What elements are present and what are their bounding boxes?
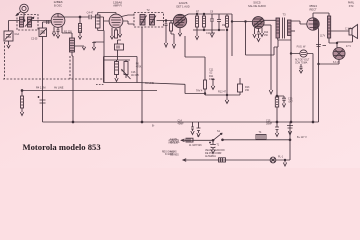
svg-text:FUS. W: FUS. W [297, 46, 306, 49]
power line top [181, 139, 213, 141]
svg-text:117V: 117V [320, 36, 326, 38]
junction T4 right [289, 139, 291, 141]
resistor R7 [196, 14, 199, 30]
wire screen dropper [276, 47, 278, 96]
svg-text:C4 47: C4 47 [87, 12, 94, 15]
resistor R5 beside V2 [96, 15, 101, 28]
resistor grid leak [170, 21, 176, 49]
V2 cathode resistor [115, 28, 118, 38]
ground det cluster 1 [195, 30, 198, 40]
capacitor osc grid [47, 20, 49, 24]
speaker wire 2 [337, 36, 353, 43]
wire C11 to pot [117, 50, 119, 60]
junction bus 2 [141, 121, 143, 123]
ground arrow bottom [283, 160, 286, 166]
ground below C1A [7, 41, 10, 48]
antenna coil can (dashed box) [17, 15, 38, 31]
svg-text:R2 22K: R2 22K [64, 31, 72, 34]
tuning capacitor C1A [4, 31, 13, 41]
svg-text:P-M: P-M [349, 5, 354, 8]
svg-text:SAL DE AUDIO: SAL DE AUDIO [248, 4, 266, 8]
V2 screen pin [118, 27, 121, 37]
T2 primary winding [140, 15, 145, 26]
wire pilot bottom [319, 60, 340, 65]
junction det2 [218, 29, 220, 31]
wire T3 bottom down [278, 35, 291, 122]
junction AVC left [21, 90, 23, 92]
svg-text:K=1000: K=1000 [165, 154, 174, 156]
junction V3 grid [165, 20, 167, 22]
dashed link into volume box [96, 84, 104, 86]
AC chevron bottom [183, 159, 186, 162]
tube V3 12AV6 [173, 14, 186, 27]
junction plate node [79, 16, 81, 18]
svg-text:150: 150 [245, 89, 250, 92]
junction R16 top [276, 95, 278, 97]
tuning arrow in coil [25, 17, 34, 26]
arrow below audio line [225, 95, 229, 104]
wire 35W4 side pins [318, 27, 319, 123]
dashed gang line vertical left [4, 42, 6, 79]
speaker [349, 25, 358, 39]
junction audio [204, 93, 206, 95]
coupling box C11 [115, 44, 124, 50]
svg-text:.047: .047 [288, 100, 293, 103]
V3 pin ground [178, 28, 181, 36]
detector cluster wires [193, 14, 232, 56]
volume pot R10 [104, 60, 130, 75]
T2 secondary winding [150, 15, 155, 26]
B minus bus [43, 121, 319, 123]
antenna coil primary winding [20, 17, 24, 27]
audio line jogs [137, 83, 240, 96]
wire R5 connections [98, 13, 116, 31]
junction fuse left [290, 53, 292, 55]
wire V1 plate to IF coupling [58, 14, 109, 21]
svg-text:AMP FI: AMP FI [113, 4, 122, 8]
dashed gang drop to osc section [69, 56, 71, 79]
ground det cluster 2 [210, 30, 213, 37]
tuning capacitor C1B [39, 28, 47, 37]
svg-text:470K: 470K [209, 78, 215, 81]
junction 50C5 grid [245, 21, 247, 23]
capacitor C4 coupling [89, 15, 91, 19]
pilot lamp PL [333, 48, 345, 60]
pot right branch [124, 60, 128, 78]
wire speaker line [331, 30, 349, 32]
V2 pin components [110, 28, 113, 40]
power line bottom [183, 159, 290, 161]
wire T2 to V3 grid [157, 20, 174, 22]
wire V3 cathode branch [185, 36, 205, 80]
svg-text:40MF: 40MF [178, 123, 185, 126]
svg-text:INDIQUE: INDIQUE [169, 143, 179, 145]
resistor R9 [226, 14, 229, 30]
svg-text:AV LINE: AV LINE [54, 87, 64, 90]
junction switch left [212, 139, 214, 141]
wire T2 secondary return [141, 27, 143, 122]
wire T3 to 35W4 plate [291, 21, 307, 24]
resistor R16 [275, 97, 278, 107]
svg-text:CON TOMA: CON TOMA [295, 61, 308, 64]
filament cap pair 1 [191, 122, 194, 135]
volume control line down [103, 31, 105, 83]
svg-text:B OSC: B OSC [54, 3, 62, 7]
dashed gang line horizontal [3, 78, 103, 80]
svg-text:AV LINE: AV LINE [145, 82, 154, 85]
AVC line [22, 90, 157, 92]
wire 50C5 screen feed [269, 25, 273, 94]
tube V4 50C5 [252, 17, 264, 29]
coupling wire C10 down [226, 30, 228, 95]
ground below R1 [20, 108, 23, 116]
resistor R17 on line [219, 158, 226, 162]
junction switch right [222, 139, 224, 141]
junction R7 top [196, 13, 198, 15]
filament dropping resistor R15 [328, 16, 331, 38]
T2 tuning arrows [141, 16, 156, 25]
wire V3 plate up [185, 14, 233, 16]
output transformer T3 [276, 18, 291, 39]
tube V2 12BA6 [109, 14, 123, 28]
wire C11 up [118, 40, 122, 44]
pot wiper arrow [122, 70, 131, 79]
svg-text:C 117 V: C 117 V [345, 28, 354, 31]
oscillator coil L2 [70, 38, 75, 52]
wire V4 plate to T3 [264, 19, 276, 21]
wire C1B down to bus [42, 37, 44, 123]
ground below V1 [56, 35, 59, 38]
wire V4 screen [263, 24, 271, 26]
V4 pin 3 [260, 28, 263, 37]
svg-text:6.3 V: 6.3 V [333, 61, 339, 64]
wire V2 plate to T2 [122, 15, 135, 24]
grid components of V3 [164, 21, 167, 48]
cap C13 with ground [277, 96, 286, 107]
svg-text:ALT DE VOLT: ALT DE VOLT [295, 59, 310, 62]
ballast T4 [256, 135, 266, 140]
svg-text:PL-1: PL-1 [278, 156, 284, 159]
junction R8 top [203, 13, 205, 15]
fuse circle [300, 50, 307, 57]
svg-text:TAV 4: TAV 4 [196, 90, 203, 93]
svg-text:A MENOS: A MENOS [169, 139, 180, 142]
svg-text:R14: R14 [264, 32, 269, 34]
junction arrow [226, 94, 228, 96]
junction ground bottom [284, 159, 286, 161]
ground arrow mid [92, 42, 104, 50]
wire antenna to coil [9, 13, 25, 31]
svg-text:B+ 117 V: B+ 117 V [297, 136, 307, 139]
antenna coil secondary winding [28, 17, 32, 27]
tube V1 12BE6 [51, 14, 65, 28]
svg-text:11 VAH 526: 11 VAH 526 [189, 144, 202, 147]
svg-text:R4 2.2M: R4 2.2M [36, 87, 45, 90]
wire grid 50C5 [232, 21, 252, 23]
wire R15 bottom to pilot [329, 38, 337, 48]
wire T3 secondary to speaker line [291, 30, 295, 32]
svg-text:C1A: C1A [15, 33, 20, 36]
loop antenna [16, 4, 28, 15]
tube V5 35W4 [307, 18, 319, 30]
electrolytic C17 [209, 140, 216, 153]
ground below pot [115, 75, 118, 82]
resistor R11 [204, 80, 207, 94]
svg-text:ALTERNA: ALTERNA [205, 155, 216, 158]
junction det [203, 29, 205, 31]
V1 osc pin wire [62, 27, 72, 39]
pilot lamp PL1 [270, 157, 276, 163]
junction coupling top [226, 29, 228, 31]
AC input chevron top [181, 139, 184, 142]
svg-text:Motorola modelo 853: Motorola modelo 853 [23, 142, 101, 152]
cap C12 [299, 64, 302, 73]
junction antenna node [23, 20, 25, 22]
wire R16 to bus [276, 107, 278, 122]
wire C1B to osc grid [43, 22, 53, 28]
svg-text:RES OHMS: RES OHMS [162, 151, 175, 153]
svg-text:B-: B- [152, 125, 155, 128]
capacitor filament bypass [316, 45, 326, 47]
capacitor C10 [217, 14, 221, 30]
ground below R2 [78, 33, 81, 40]
paper background [0, 0, 360, 168]
junction R16 bus [276, 121, 278, 123]
filament cap pair 2 [197, 122, 201, 137]
switch S1 arm [213, 133, 222, 140]
svg-text:AV 005: AV 005 [131, 74, 139, 77]
V4 pin cap [257, 28, 260, 41]
wire fuse line [291, 54, 313, 123]
volume box outline [104, 57, 138, 83]
svg-text:C2 05: C2 05 [31, 38, 38, 41]
wire coil to V1 grid [32, 20, 52, 22]
electrolytic on line [38, 96, 46, 103]
junction speaker line [336, 42, 338, 44]
V1 cathode pin components [52, 27, 55, 36]
resistor R2 [79, 17, 82, 33]
junction bus 3 [290, 121, 292, 123]
fuse F1 on line [186, 138, 193, 142]
B- arrow down [211, 79, 215, 90]
svg-text:47 V: 47 V [346, 45, 351, 48]
resistor R8 [203, 14, 206, 30]
resistor R13 vertical [238, 78, 243, 95]
wire L2 to B- bus [72, 52, 73, 122]
junction pilot return [318, 63, 320, 65]
svg-text:C10 250: C10 250 [206, 32, 216, 35]
power line to T4 [223, 139, 291, 141]
capacitor C15b [287, 126, 293, 136]
IF transformer T2 can (dashed box) [134, 13, 164, 28]
capacitor C9 [210, 14, 214, 30]
V1 grid pin capacitor [57, 27, 60, 35]
wire 35W4 top to R15 [313, 13, 329, 18]
svg-text:R12 47: R12 47 [218, 91, 227, 94]
osc coil tap ground [75, 46, 86, 50]
svg-text:RECT: RECT [309, 7, 316, 11]
V4 cathode components [253, 28, 256, 37]
junction bus 1 [72, 121, 74, 123]
junction bus 4 [312, 121, 314, 123]
resistor R1 AVC [21, 91, 24, 109]
svg-text:DET 1 AUD: DET 1 AUD [176, 4, 189, 8]
right vertical to bottom [289, 122, 291, 160]
cap C15 right [275, 122, 279, 137]
svg-text:30MF: 30MF [266, 123, 273, 126]
wire 50C5 loop [246, 22, 279, 56]
junction grid corner [231, 21, 233, 23]
